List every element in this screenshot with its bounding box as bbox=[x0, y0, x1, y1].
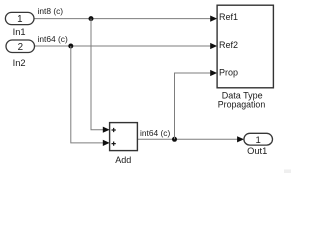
arrowhead into Add input 2 bbox=[103, 140, 110, 146]
arrowhead into Ref1 bbox=[210, 16, 217, 22]
arrowhead into Out1 bbox=[237, 136, 244, 142]
svg-text:Prop: Prop bbox=[219, 68, 238, 78]
plus sign port 2 of Add bbox=[112, 142, 116, 146]
adder block Add bbox=[110, 123, 138, 151]
svg-text:Ref2: Ref2 bbox=[219, 40, 238, 50]
svg-text:Out1: Out1 bbox=[247, 146, 267, 156]
wire branch from J3 up to Prop input bbox=[175, 73, 212, 139]
wire branch from J1 down to Add input 1 bbox=[91, 19, 104, 130]
block Data Type Propagation bbox=[217, 5, 273, 88]
wire from In2 to Ref2 bbox=[34, 45, 211, 47]
junction node J3 on Add output wire bbox=[172, 137, 177, 142]
svg-text:int64 (c): int64 (c) bbox=[38, 34, 68, 44]
outport Out1 bbox=[244, 133, 273, 146]
svg-text:In2: In2 bbox=[13, 58, 26, 68]
junction node J2 on In2 wire bbox=[68, 44, 73, 49]
arrowhead into Prop bbox=[210, 70, 217, 76]
wire branch from J2 down to Add input 2 bbox=[71, 46, 104, 143]
svg-text:2: 2 bbox=[18, 42, 23, 53]
faint watermark artifact bottom right bbox=[284, 169, 291, 173]
svg-text:Propagation: Propagation bbox=[218, 100, 266, 110]
inport In2 bbox=[6, 40, 35, 53]
wire from Add output to Out1 bbox=[137, 138, 238, 140]
svg-text:1: 1 bbox=[256, 135, 261, 146]
junction node J1 on In1 wire bbox=[89, 16, 94, 21]
svg-text:In1: In1 bbox=[13, 27, 26, 37]
label Data Type Propagation bbox=[218, 90, 266, 109]
arrowhead into Add input 1 bbox=[103, 127, 110, 133]
svg-text:int8 (c): int8 (c) bbox=[38, 6, 64, 16]
svg-text:int64 (c): int64 (c) bbox=[140, 128, 170, 138]
inport In1 bbox=[5, 12, 34, 25]
arrowhead into Ref2 bbox=[210, 43, 217, 49]
plus sign port 1 of Add bbox=[112, 128, 116, 132]
wire from In1 to Ref1 bbox=[34, 18, 211, 20]
svg-text:Add: Add bbox=[115, 155, 131, 165]
svg-text:1: 1 bbox=[17, 14, 22, 25]
svg-text:Ref1: Ref1 bbox=[219, 12, 238, 22]
